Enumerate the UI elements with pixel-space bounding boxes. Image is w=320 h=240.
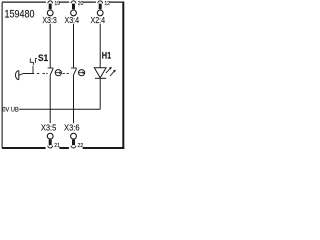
- connector pin X3:6 bottom (pin rect): [72, 140, 75, 146]
- svg-text:X3:4: X3:4: [65, 16, 80, 25]
- wire contact to X3:6: [73, 75, 75, 123]
- svg-text:21: 21: [54, 143, 60, 149]
- S1 linkage dashes left: [37, 72, 48, 74]
- connector pin X3:4 top (pin rect): [72, 4, 75, 10]
- wire LED H1 down to 0V rail: [99, 79, 101, 110]
- connector pin X3:4 top (socket arc): [71, 1, 76, 3]
- S1 contact 2 blade: [73, 68, 76, 75]
- S1 contact 1 tick: [48, 67, 54, 69]
- border frame: [2, 2, 124, 148]
- connector pin X2:4 top (socket arc): [98, 1, 103, 3]
- terminal X3:4 circle: [71, 10, 77, 16]
- svg-text:X3:3: X3:3: [42, 16, 57, 25]
- svg-text:12: 12: [104, 1, 110, 7]
- svg-text:X3:5: X3:5: [41, 123, 57, 132]
- svg-text:S1: S1: [38, 53, 49, 64]
- svg-text:159480: 159480: [5, 9, 35, 21]
- svg-text:22: 22: [78, 143, 84, 149]
- connector pin X3:5 bottom (socket arc): [48, 146, 53, 148]
- S1 contact 2 actuation circle: [79, 70, 85, 76]
- S1 contact 1 actuation circle: [55, 70, 61, 76]
- terminal X3:6 circle: [71, 133, 77, 139]
- terminal X2:4 circle: [97, 10, 103, 16]
- 0V rail: [19, 108, 100, 110]
- S1 contact 1 arrow: [55, 72, 59, 74]
- S1 contact 1 blade: [50, 68, 53, 75]
- S1 twist-release symbol: [30, 58, 37, 65]
- svg-text:X3:6: X3:6: [64, 123, 80, 132]
- LED H1 light arrow 1: [106, 69, 110, 74]
- LED H1 triangle: [94, 68, 106, 78]
- wire X3:4 down to contact: [73, 24, 75, 68]
- svg-text:0V UB: 0V UB: [2, 106, 19, 113]
- wire X2:4 down to LED H1: [99, 24, 101, 68]
- terminal X3:3 circle: [47, 10, 53, 16]
- LED H1 cathode bar: [95, 77, 106, 79]
- S1 linkage dashes middle: [62, 72, 69, 74]
- wire contact to X3:5: [49, 75, 51, 123]
- S1 contact 2 tick: [71, 67, 77, 69]
- svg-text:X2:4: X2:4: [91, 16, 106, 25]
- S1 mushroom cap: [15, 71, 18, 80]
- svg-text:20: 20: [78, 1, 84, 7]
- S1 contact 2 arrow: [79, 72, 83, 74]
- connector pin X3:5 bottom (pin rect): [49, 140, 52, 146]
- connector pin X3:3 top (socket arc): [48, 1, 53, 3]
- connector pin X3:3 top (pin rect): [49, 4, 52, 10]
- terminal X3:5 circle: [47, 133, 53, 139]
- S1 release stalk: [32, 66, 34, 74]
- connector pin X3:6 bottom (socket arc): [71, 146, 76, 148]
- S1 stem: [19, 74, 34, 76]
- LED H1 light arrow 2: [110, 71, 114, 76]
- connector pin X2:4 top (pin rect): [99, 4, 102, 10]
- wire X3:3 down to contact: [49, 24, 51, 68]
- svg-text:H1: H1: [102, 50, 112, 61]
- svg-text:19: 19: [54, 1, 60, 7]
